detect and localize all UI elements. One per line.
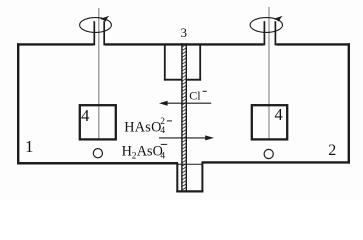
membrane top holder bottom-left segment [164,79,182,81]
svg-text:Cl: Cl [189,89,201,103]
membrane top holder right vertical [199,45,201,81]
membrane 3: hatched strip [183,43,186,190]
stirrer rotation arrowhead left [100,16,109,22]
stirrer rotation ellipse right [250,18,282,33]
svg-text:3: 3 [181,25,188,40]
membrane top holder bottom-right segment [186,79,201,81]
svg-text:H: H [122,144,132,160]
tank bottom wall left chamber [17,162,178,165]
svg-text:4: 4 [274,105,282,124]
bubble circle left [93,149,102,158]
svg-text:4: 4 [81,106,89,125]
svg-text:HAsO: HAsO [124,119,161,135]
membrane bottom holder bottom line [176,190,203,192]
electrode box right (4) [252,105,287,139]
tank left wall [17,43,19,164]
stirrer rotation ellipse left [80,18,112,33]
svg-text:AsO: AsO [137,144,163,160]
tank right wall [348,43,350,163]
stirrer collar left [93,21,95,45]
tank bottom wall right chamber [202,161,351,163]
svg-text:2: 2 [160,117,165,127]
membrane bottom holder thin interior line [177,163,202,165]
membrane bottom holder left vertical [176,163,178,192]
tank top wall (3 segments with stirrer gaps) [17,43,94,45]
svg-text:1: 1 [25,137,34,156]
membrane bottom holder right vertical [201,162,203,192]
svg-text:2: 2 [328,142,336,159]
stirrer shaft right [268,7,270,140]
svg-text:4: 4 [160,126,165,136]
membrane top holder left vertical [164,45,166,81]
stirrer collar right [263,21,265,45]
stirrer rotation arrowhead right [273,16,282,22]
bubble circle right [264,149,273,158]
stirrer shaft left [98,8,100,140]
svg-text:4: 4 [160,152,165,162]
Cl- arrow (pointing left) [161,102,211,104]
arsenate arrow (pointing right) [159,137,212,139]
electrode box left (4) [80,105,116,139]
